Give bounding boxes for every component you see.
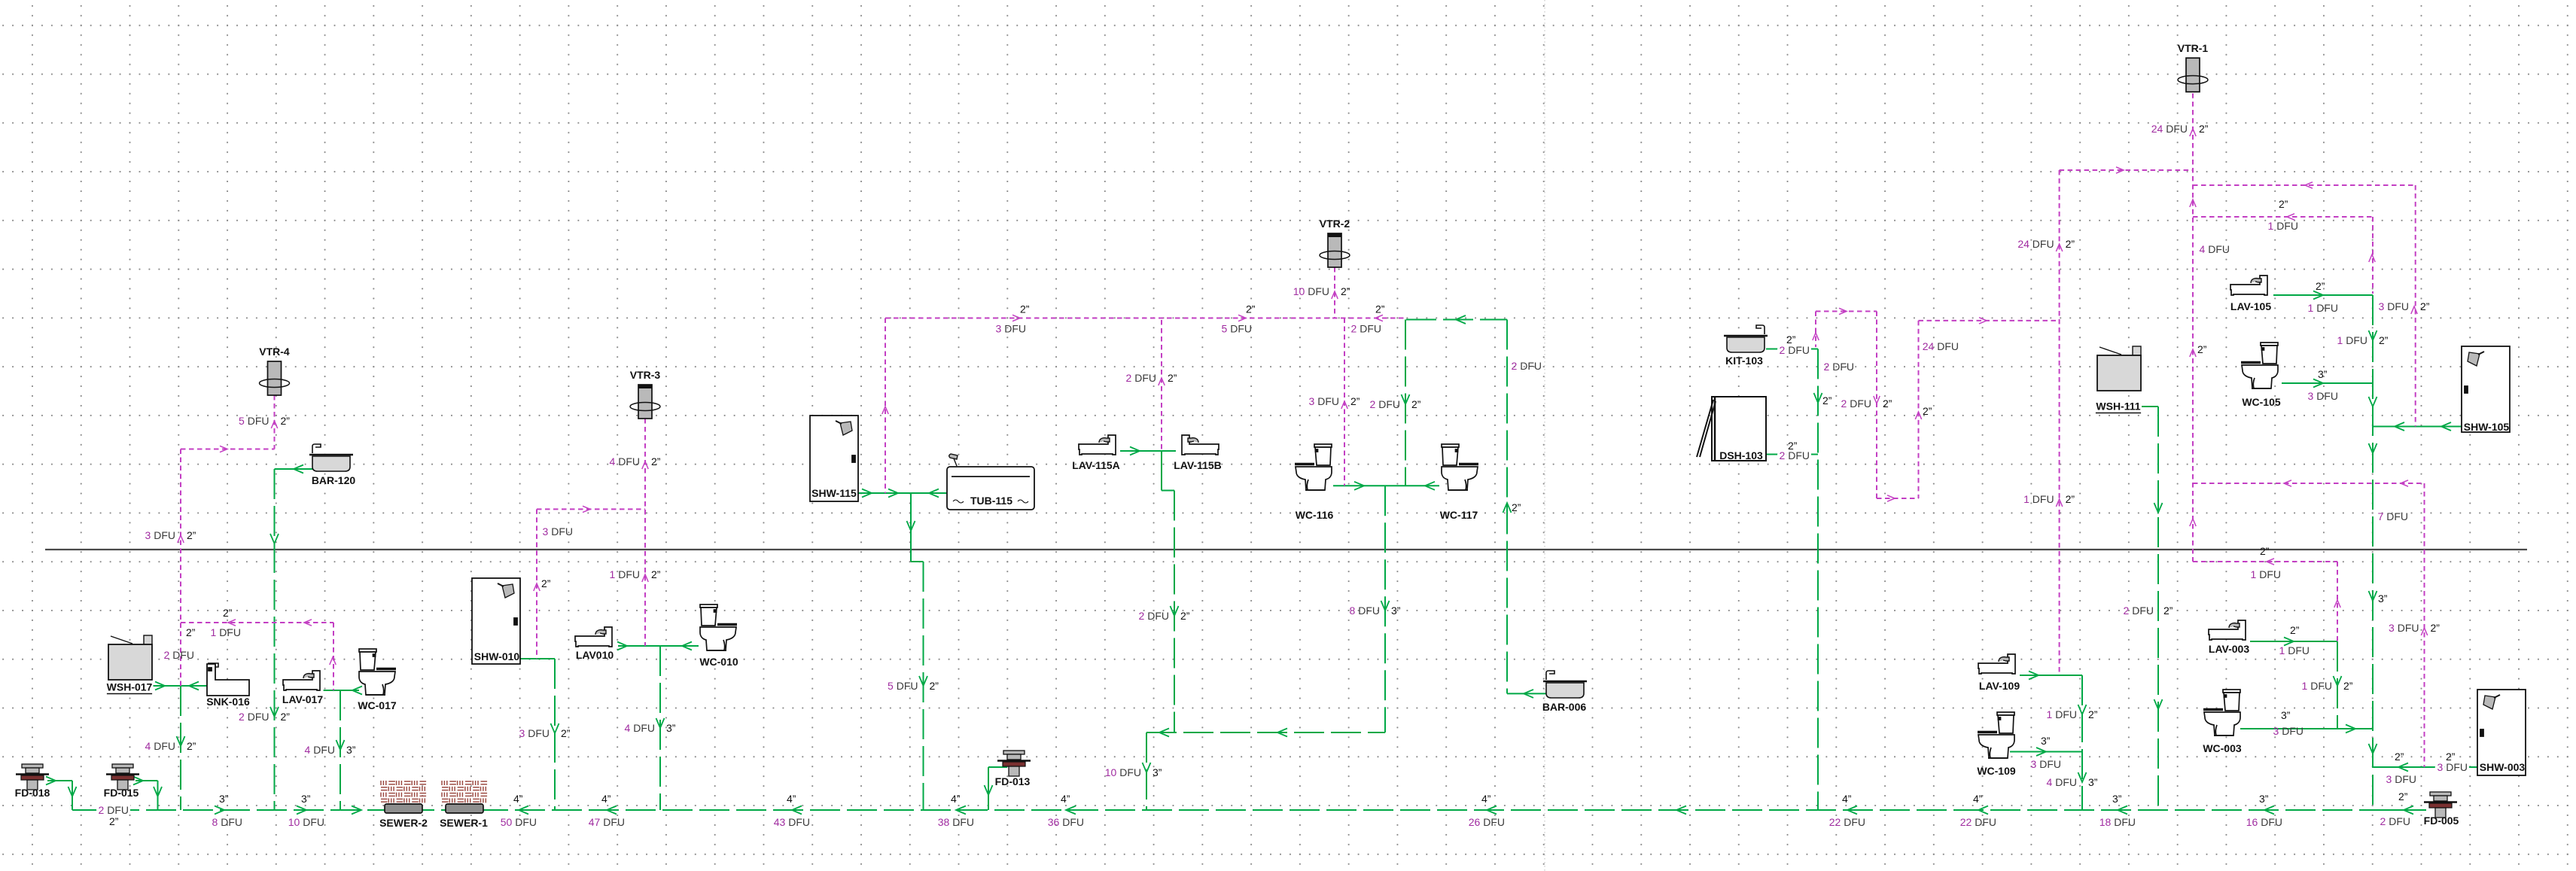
svg-text:2”: 2” bbox=[187, 740, 196, 752]
svg-text:5 DFU: 5 DFU bbox=[888, 680, 918, 692]
svg-text:2”: 2” bbox=[281, 415, 291, 427]
svg-text:WC-017: WC-017 bbox=[358, 699, 397, 711]
svg-text:10 DFU: 10 DFU bbox=[288, 816, 324, 828]
svg-text:10 DFU: 10 DFU bbox=[1293, 285, 1329, 297]
svg-text:3”: 3” bbox=[346, 744, 356, 756]
svg-text:WC-116: WC-116 bbox=[1296, 509, 1334, 521]
svg-text:WSH-017: WSH-017 bbox=[107, 681, 153, 693]
svg-text:2 DFU: 2 DFU bbox=[164, 649, 194, 661]
svg-text:18 DFU: 18 DFU bbox=[2099, 816, 2136, 828]
svg-text:WC-105: WC-105 bbox=[2242, 396, 2281, 408]
svg-text:VTR-2: VTR-2 bbox=[1320, 218, 1350, 230]
svg-text:2”: 2” bbox=[1923, 405, 1932, 417]
svg-text:2 DFU: 2 DFU bbox=[1512, 360, 1542, 372]
svg-text:2 DFU: 2 DFU bbox=[1351, 323, 1381, 335]
svg-text:KIT-103: KIT-103 bbox=[1725, 355, 1763, 367]
svg-text:3”: 3” bbox=[666, 722, 676, 734]
svg-text:2”: 2” bbox=[1168, 372, 1177, 384]
svg-text:LAV-105: LAV-105 bbox=[2230, 300, 2271, 312]
svg-text:2”: 2” bbox=[2398, 790, 2408, 802]
svg-text:2”: 2” bbox=[2199, 123, 2209, 135]
svg-text:3”: 3” bbox=[2259, 793, 2269, 805]
svg-text:2”: 2” bbox=[186, 626, 196, 638]
svg-text:3 DFU: 3 DFU bbox=[2273, 725, 2303, 737]
svg-text:2”: 2” bbox=[651, 455, 661, 467]
svg-text:1 DFU: 1 DFU bbox=[211, 626, 241, 638]
svg-text:2”: 2” bbox=[2066, 238, 2075, 250]
svg-text:2”: 2” bbox=[2066, 493, 2075, 505]
svg-text:4”: 4” bbox=[1061, 793, 1070, 805]
svg-text:8 DFU: 8 DFU bbox=[1350, 605, 1380, 617]
svg-text:50 DFU: 50 DFU bbox=[501, 816, 537, 828]
svg-text:WC-109: WC-109 bbox=[1977, 765, 2016, 777]
svg-text:SEWER-2: SEWER-2 bbox=[379, 817, 428, 829]
svg-text:2”: 2” bbox=[2420, 300, 2430, 312]
svg-text:3”: 3” bbox=[2378, 592, 2388, 605]
svg-text:2”: 2” bbox=[1341, 285, 1350, 297]
svg-text:4”: 4” bbox=[513, 793, 523, 805]
svg-text:2”: 2” bbox=[2343, 680, 2353, 692]
svg-text:3”: 3” bbox=[1391, 605, 1401, 617]
svg-text:SHW-010: SHW-010 bbox=[474, 650, 520, 662]
svg-text:4 DFU: 4 DFU bbox=[2200, 243, 2230, 255]
svg-text:2”: 2” bbox=[2395, 751, 2404, 763]
svg-text:FD-018: FD-018 bbox=[15, 787, 50, 799]
svg-text:2 DFU: 2 DFU bbox=[2124, 605, 2154, 617]
svg-text:2”: 2” bbox=[2088, 708, 2098, 720]
svg-text:3”: 3” bbox=[301, 793, 311, 805]
svg-text:2 DFU: 2 DFU bbox=[1841, 397, 1871, 410]
svg-text:DSH-103: DSH-103 bbox=[1719, 449, 1763, 461]
svg-text:36 DFU: 36 DFU bbox=[1048, 816, 1084, 828]
svg-text:4”: 4” bbox=[1481, 793, 1491, 805]
svg-text:3 DFU: 3 DFU bbox=[2389, 622, 2419, 634]
svg-text:1 DFU: 1 DFU bbox=[2279, 644, 2310, 656]
svg-text:2”: 2” bbox=[1020, 303, 1030, 315]
svg-text:2”: 2” bbox=[2197, 343, 2207, 355]
svg-text:3”: 3” bbox=[2281, 709, 2291, 721]
svg-text:SEWER-1: SEWER-1 bbox=[440, 817, 488, 829]
svg-text:FD-005: FD-005 bbox=[2424, 815, 2459, 827]
svg-text:2”: 2” bbox=[2316, 280, 2325, 292]
svg-text:FD-015: FD-015 bbox=[104, 787, 139, 799]
svg-text:SHW-003: SHW-003 bbox=[2480, 761, 2526, 773]
svg-text:3”: 3” bbox=[2318, 368, 2328, 380]
svg-text:3 DFU: 3 DFU bbox=[2386, 773, 2416, 785]
svg-text:VTR-1: VTR-1 bbox=[2178, 42, 2209, 54]
svg-text:SHW-115: SHW-115 bbox=[811, 487, 857, 499]
svg-text:2”: 2” bbox=[2431, 622, 2441, 634]
svg-text:26 DFU: 26 DFU bbox=[1469, 816, 1505, 828]
svg-text:3”: 3” bbox=[219, 793, 229, 805]
svg-text:3 DFU: 3 DFU bbox=[1309, 395, 1339, 407]
svg-text:38 DFU: 38 DFU bbox=[938, 816, 974, 828]
svg-text:1 DFU: 1 DFU bbox=[2268, 220, 2298, 232]
svg-text:4”: 4” bbox=[601, 793, 611, 805]
svg-text:1 DFU: 1 DFU bbox=[2302, 680, 2332, 692]
svg-text:2 DFU: 2 DFU bbox=[1370, 398, 1400, 410]
svg-text:1 DFU: 1 DFU bbox=[2337, 334, 2367, 346]
svg-text:4 DFU: 4 DFU bbox=[305, 744, 335, 756]
svg-text:SNK-016: SNK-016 bbox=[206, 696, 250, 708]
svg-text:3”: 3” bbox=[2088, 776, 2098, 788]
svg-text:2 DFU: 2 DFU bbox=[239, 711, 269, 723]
svg-text:22 DFU: 22 DFU bbox=[1960, 816, 1996, 828]
svg-text:LAV010: LAV010 bbox=[576, 649, 614, 661]
svg-text:3”: 3” bbox=[2041, 735, 2051, 747]
svg-text:3 DFU: 3 DFU bbox=[145, 529, 175, 541]
svg-text:2”: 2” bbox=[930, 680, 939, 692]
svg-text:LAV-017: LAV-017 bbox=[282, 693, 323, 705]
svg-text:2”: 2” bbox=[1375, 303, 1385, 315]
svg-text:TUB-115: TUB-115 bbox=[970, 495, 1012, 507]
svg-text:16 DFU: 16 DFU bbox=[2246, 816, 2282, 828]
svg-text:1 DFU: 1 DFU bbox=[610, 568, 640, 580]
svg-text:5 DFU: 5 DFU bbox=[1222, 323, 1252, 335]
svg-text:4”: 4” bbox=[1842, 793, 1852, 805]
svg-text:2”: 2” bbox=[1883, 397, 1892, 410]
svg-text:24 DFU: 24 DFU bbox=[2151, 123, 2188, 135]
svg-text:2”: 2” bbox=[1512, 501, 1521, 513]
svg-text:2 DFU: 2 DFU bbox=[1126, 372, 1156, 384]
svg-text:2 DFU: 2 DFU bbox=[2380, 815, 2410, 827]
svg-text:22 DFU: 22 DFU bbox=[1829, 816, 1865, 828]
svg-text:4 DFU: 4 DFU bbox=[145, 740, 175, 752]
svg-text:2”: 2” bbox=[1411, 398, 1421, 410]
svg-text:3”: 3” bbox=[1153, 766, 1162, 778]
svg-text:VTR-3: VTR-3 bbox=[630, 369, 661, 381]
svg-text:2”: 2” bbox=[2163, 605, 2173, 617]
svg-text:LAV-115B: LAV-115B bbox=[1174, 459, 1222, 471]
svg-text:8 DFU: 8 DFU bbox=[212, 816, 242, 828]
svg-text:2”: 2” bbox=[2279, 198, 2288, 210]
svg-text:1 DFU: 1 DFU bbox=[2023, 493, 2054, 505]
svg-text:LAV-003: LAV-003 bbox=[2209, 643, 2249, 655]
svg-text:1 DFU: 1 DFU bbox=[2308, 302, 2338, 314]
svg-text:7 DFU: 7 DFU bbox=[2378, 510, 2408, 522]
svg-text:2”: 2” bbox=[651, 568, 661, 580]
svg-text:2”: 2” bbox=[2260, 545, 2270, 557]
svg-text:2”: 2” bbox=[223, 607, 233, 619]
svg-text:LAV-109: LAV-109 bbox=[1979, 680, 2020, 692]
svg-text:47 DFU: 47 DFU bbox=[589, 816, 625, 828]
svg-text:3 DFU: 3 DFU bbox=[2031, 758, 2061, 770]
svg-text:BAR-006: BAR-006 bbox=[1542, 701, 1587, 713]
svg-text:43 DFU: 43 DFU bbox=[774, 816, 810, 828]
svg-text:10 DFU: 10 DFU bbox=[1105, 766, 1141, 778]
svg-text:24 DFU: 24 DFU bbox=[2017, 238, 2054, 250]
svg-text:2”: 2” bbox=[541, 577, 551, 589]
svg-text:1 DFU: 1 DFU bbox=[2251, 568, 2281, 580]
svg-text:BAR-120: BAR-120 bbox=[312, 474, 356, 486]
svg-text:2”: 2” bbox=[281, 711, 291, 723]
svg-text:2 DFU: 2 DFU bbox=[1780, 344, 1810, 356]
svg-text:5 DFU: 5 DFU bbox=[239, 415, 269, 427]
svg-text:3 DFU: 3 DFU bbox=[2308, 390, 2338, 402]
svg-text:2”: 2” bbox=[1180, 610, 1190, 622]
svg-text:2”: 2” bbox=[2379, 334, 2389, 346]
svg-text:2 DFU: 2 DFU bbox=[1780, 449, 1810, 461]
svg-text:LAV-115A: LAV-115A bbox=[1072, 459, 1120, 471]
svg-text:4 DFU: 4 DFU bbox=[625, 722, 655, 734]
svg-text:1 DFU: 1 DFU bbox=[2047, 708, 2077, 720]
svg-text:2”: 2” bbox=[2290, 624, 2300, 636]
svg-text:WC-003: WC-003 bbox=[2203, 742, 2242, 754]
svg-text:4 DFU: 4 DFU bbox=[2047, 776, 2077, 788]
svg-text:2”: 2” bbox=[1246, 303, 1256, 315]
svg-text:FD-013: FD-013 bbox=[995, 775, 1031, 787]
svg-text:3 DFU: 3 DFU bbox=[543, 525, 573, 538]
svg-text:3”: 3” bbox=[2112, 793, 2122, 805]
svg-text:4”: 4” bbox=[787, 793, 796, 805]
svg-text:2”: 2” bbox=[109, 815, 119, 827]
svg-text:4”: 4” bbox=[1973, 793, 1983, 805]
svg-text:3 DFU: 3 DFU bbox=[996, 323, 1026, 335]
svg-text:WSH-111: WSH-111 bbox=[2096, 400, 2140, 413]
svg-text:2”: 2” bbox=[187, 529, 196, 541]
svg-text:4”: 4” bbox=[951, 793, 961, 805]
svg-text:3 DFU: 3 DFU bbox=[519, 727, 550, 739]
svg-text:SHW-105: SHW-105 bbox=[2464, 421, 2510, 433]
svg-text:24 DFU: 24 DFU bbox=[1923, 340, 1959, 352]
svg-text:3 DFU: 3 DFU bbox=[2379, 300, 2409, 312]
svg-text:VTR-4: VTR-4 bbox=[259, 346, 290, 358]
svg-text:WC-117: WC-117 bbox=[1440, 509, 1478, 521]
svg-text:2”: 2” bbox=[1822, 394, 1832, 407]
svg-text:2”: 2” bbox=[561, 727, 571, 739]
svg-text:3 DFU: 3 DFU bbox=[2437, 761, 2468, 773]
svg-text:2 DFU: 2 DFU bbox=[1824, 361, 1854, 373]
svg-text:4 DFU: 4 DFU bbox=[610, 455, 640, 467]
svg-text:2 DFU: 2 DFU bbox=[99, 804, 129, 816]
svg-text:WC-010: WC-010 bbox=[699, 656, 738, 668]
svg-text:2”: 2” bbox=[1350, 395, 1360, 407]
svg-text:2 DFU: 2 DFU bbox=[1139, 610, 1169, 622]
